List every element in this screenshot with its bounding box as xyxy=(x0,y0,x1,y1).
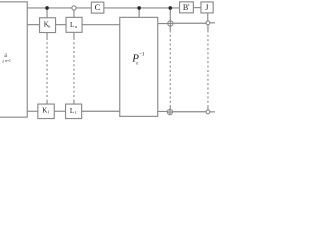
wire P to bottom sum xyxy=(158,110,168,112)
junction dot at P branch xyxy=(137,6,141,10)
box J xyxy=(201,2,213,13)
connector circle bottom xyxy=(206,110,210,114)
svg-text:L: L xyxy=(70,21,74,29)
wire J down to top connector xyxy=(207,13,209,21)
wire Ll to P xyxy=(82,110,120,112)
plant box (cut off at left edge) xyxy=(0,2,27,117)
wire Kl to Ll xyxy=(54,110,65,112)
summing junction top xyxy=(168,21,173,26)
dashed link Ku to Kl xyxy=(46,33,48,38)
wire top row C to Bt xyxy=(104,7,180,9)
wire Ku to Lu xyxy=(56,24,66,26)
box Bt xyxy=(180,2,194,13)
dashed link Lu to Ll xyxy=(73,32,75,38)
junction dot at top-sum branch xyxy=(168,6,172,10)
wire branch down to Ku xyxy=(46,8,48,18)
wire branch down to Lu xyxy=(73,10,75,17)
svg-text:n+1: n+1 xyxy=(5,59,11,63)
wire top sum to top connector xyxy=(173,22,206,24)
dashed link top connector to bottom connector xyxy=(207,25,209,31)
svg-text:L: L xyxy=(70,107,74,115)
svg-text:J: J xyxy=(205,3,208,12)
summing junction bottom xyxy=(167,109,172,114)
wire branch down to P xyxy=(138,8,140,17)
dashed link top sum to bottom sum xyxy=(169,26,171,30)
connector circle top xyxy=(206,21,210,25)
wire top connector to right edge xyxy=(210,22,215,24)
svg-text:−1: −1 xyxy=(139,52,145,58)
wire bottom row plant to Kl xyxy=(27,110,38,112)
wire P to top sum xyxy=(158,23,168,25)
wire row2 plant to Ku xyxy=(27,24,39,26)
wire top row plant to C xyxy=(27,7,91,9)
svg-text:C: C xyxy=(95,2,101,12)
wire Lu to P xyxy=(82,24,120,26)
wire bottom connector to right edge xyxy=(210,111,215,113)
wire branch down to top sum xyxy=(169,8,171,21)
box Ku xyxy=(40,18,56,33)
box C xyxy=(91,2,104,13)
box Lu xyxy=(66,17,82,32)
wire between Bt and J xyxy=(193,7,201,9)
svg-text:K: K xyxy=(42,107,47,115)
box P xyxy=(120,17,158,116)
box Ll xyxy=(66,104,82,119)
tap circle on top wire above Lu xyxy=(72,6,76,10)
wire bottom sum to bottom connector xyxy=(173,111,207,113)
junction dot at Ku branch xyxy=(45,6,49,10)
svg-text:z: z xyxy=(1,59,4,64)
box Kl xyxy=(38,104,54,119)
